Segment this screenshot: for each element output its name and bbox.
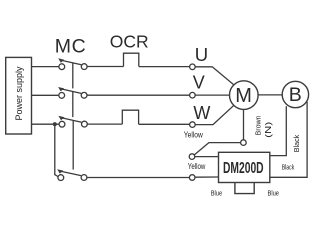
svg-text:V: V xyxy=(193,73,205,93)
junction node on L3 xyxy=(53,122,57,126)
svg-text:MC: MC xyxy=(55,36,87,58)
svg-text:Black: Black xyxy=(292,135,301,153)
svg-text:M: M xyxy=(235,85,252,107)
contact MC-4 right terminal xyxy=(81,175,87,181)
wire L3 from supply xyxy=(32,123,60,125)
brake B circle xyxy=(282,81,308,107)
node yellow terminal brake xyxy=(189,154,195,160)
contact MC-2 blade xyxy=(61,89,82,94)
svg-text:B: B xyxy=(289,84,302,106)
wire L1 from supply xyxy=(32,66,59,68)
contact MC-1 right terminal xyxy=(81,64,87,70)
contact MC-2 right terminal xyxy=(81,92,87,98)
wire terminal to DM200D xyxy=(195,156,219,158)
wire L3 to W terminal xyxy=(139,123,190,125)
contact MC-4 arrowhead xyxy=(57,169,63,173)
svg-text:Black: Black xyxy=(282,164,295,171)
MC linkage segment 1 xyxy=(72,63,74,89)
svg-text:Yellow: Yellow xyxy=(184,131,203,140)
wire black 2 from B xyxy=(270,102,307,178)
contact MC-4 blade xyxy=(60,171,81,176)
motor M circle U1 xyxy=(230,81,259,110)
svg-text:W: W xyxy=(193,103,210,123)
wire M to B xyxy=(258,94,282,96)
wire L1 to OCR xyxy=(87,66,123,68)
wire L4 into DM200D xyxy=(195,176,219,178)
wire black 1 from B xyxy=(270,106,287,156)
wire W to motor xyxy=(195,105,234,124)
contact MC-1 left terminal xyxy=(59,64,65,70)
wire L1 to U terminal xyxy=(139,66,190,68)
node W terminal xyxy=(190,122,196,128)
MC linkage segment 2 xyxy=(72,91,74,117)
svg-text:DM200D: DM200D xyxy=(223,160,264,177)
contact MC-3 arrowhead xyxy=(58,116,64,120)
svg-text:Power supply: Power supply xyxy=(14,66,24,121)
svg-text:U: U xyxy=(195,44,208,65)
contact MC-2 left terminal xyxy=(59,93,65,99)
DM200D box xyxy=(219,152,270,182)
node yellow terminal L4 xyxy=(189,175,195,181)
wire L3 to OCR xyxy=(87,123,122,125)
svg-text:Brown: Brown xyxy=(254,116,263,136)
svg-text:Blue: Blue xyxy=(211,189,223,198)
node brown terminal xyxy=(241,140,247,146)
contact MC-3 left terminal xyxy=(59,121,65,127)
contact MC-4 left terminal xyxy=(58,175,64,181)
contact MC-3 blade xyxy=(61,118,82,123)
power supply box xyxy=(6,57,32,134)
node V terminal xyxy=(190,92,196,98)
wire brown from motor xyxy=(243,109,245,139)
contact MC-1 arrowhead xyxy=(58,58,64,62)
wire L2 from supply xyxy=(32,94,59,96)
wire U to motor xyxy=(195,67,234,85)
wire terminal to brown node xyxy=(194,143,240,155)
OCR heater element phase W xyxy=(122,110,138,124)
node U terminal xyxy=(190,64,196,70)
contact MC-3 right terminal xyxy=(82,121,88,127)
wire L2 to V terminal xyxy=(87,94,190,96)
svg-text:Yellow: Yellow xyxy=(188,162,206,171)
OCR heater element phase U xyxy=(124,53,139,66)
wire V to motor xyxy=(195,94,229,96)
MC linkage segment 3 xyxy=(72,120,74,170)
svg-text:(N): (N) xyxy=(264,121,273,137)
wire junction drop xyxy=(55,124,58,176)
DM200D connector tab xyxy=(235,183,254,194)
svg-text:Blue: Blue xyxy=(268,189,280,198)
contact MC-2 arrowhead xyxy=(58,87,64,91)
contact MC-1 blade xyxy=(61,60,82,65)
svg-text:OCR: OCR xyxy=(110,32,149,52)
wire L4 to yellow terminal xyxy=(87,177,189,179)
